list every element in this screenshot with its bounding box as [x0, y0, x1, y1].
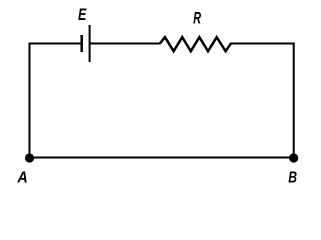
- svg-text:B: B: [288, 170, 297, 187]
- wire: resistor to top-right corner: [230, 43, 295, 45]
- svg-text:R: R: [193, 10, 201, 28]
- wire: top edge from top-left corner to battery: [29, 43, 82, 45]
- resistor R (zigzag body): [160, 37, 231, 51]
- wire: bottom side (node A to node B): [29, 157, 295, 159]
- battery E (long positive plate): [89, 25, 91, 62]
- battery E (short negative plate): [80, 35, 83, 52]
- wire: right vertical side (top-right corner down to node B): [293, 43, 295, 159]
- node A (junction dot): [25, 153, 34, 162]
- wire: left vertical side (node A up to top-left corner): [29, 43, 31, 159]
- node B (junction dot): [289, 153, 298, 162]
- wire: battery to resistor: [91, 43, 160, 45]
- svg-text:A: A: [16, 170, 27, 187]
- svg-text:E: E: [78, 5, 87, 24]
